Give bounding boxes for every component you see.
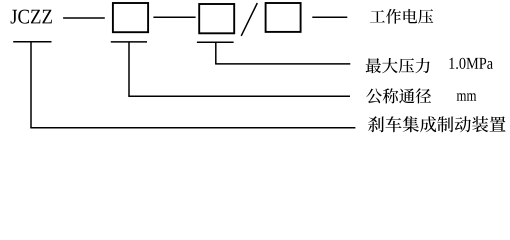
wire: vertical from box 2 down [215, 42, 217, 64]
label: brake integrated braking device (刹车集成制动装置) [368, 116, 505, 132]
wire: dash between box 1 and box 2 [153, 16, 195, 18]
box 1 (nominal diameter code) [113, 3, 148, 32]
text: value 1.0MPa [449, 58, 493, 69]
slash separator [241, 3, 257, 36]
wire: vertical from JCZZ down [30, 42, 32, 128]
wire: horizontal to nominal-diameter label [128, 95, 350, 97]
text: unit mm [457, 93, 477, 100]
wire: hat under box 1 [111, 41, 147, 43]
label: maximum pressure (最大压力) [366, 58, 430, 73]
box 2 (maximum pressure code) [199, 4, 234, 33]
wire: dash after JCZZ [63, 17, 105, 19]
wire: horizontal to maximum-pressure label [215, 63, 350, 65]
wire: bottom horizontal to device label [30, 127, 355, 129]
label: nominal diameter (公称通径) [366, 88, 431, 103]
wire: vertical from box 1 down [128, 42, 130, 96]
wire: hat under box 2 [197, 41, 234, 43]
wire: hat under JCZZ [13, 41, 51, 43]
label: working voltage (工作电压) [370, 9, 433, 24]
wire: dash from box 3 to working-voltage label [312, 16, 347, 18]
text: model prefix JCZZ [11, 10, 52, 24]
box 3 (working voltage code) [266, 3, 301, 32]
